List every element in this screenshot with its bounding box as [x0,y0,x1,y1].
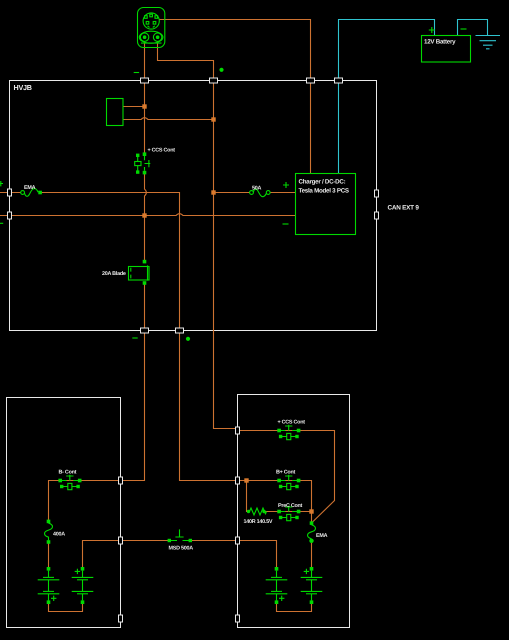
port HVJB top 12V [335,78,343,83]
port HVJB left + [8,189,12,196]
plus mark at HVJB left + port [0,181,3,186]
minus mark at HVJB left - port [0,222,3,224]
junction wire3 / + rail right [211,190,215,194]
svg-text:CAN EXT 9: CAN EXT 9 [388,205,420,212]
svg-text:+ CCS Cont: + CCS Cont [278,420,306,426]
junction precharge / B+ down leg [309,509,313,513]
junction wire1 / module A [142,104,146,108]
svg-text:400A: 400A [53,532,65,538]
svg-text:B- Cont: B- Cont [59,470,77,476]
port HVJB top wire3 [210,78,218,83]
12V battery B1 [422,36,471,63]
contactor CCS Cont (vertical, in HVJB) [135,148,176,175]
wire CCS DC- (wire1) below blade fuse down and left to B- port [121,284,145,481]
port left box spare [119,615,123,622]
contactor + CCS Cont (right box) [277,420,305,440]
fuse 20A Blade [102,260,149,285]
battery pack left (bottom-left box, + at bottom) [38,567,60,604]
wire charge port module output A to wire1 [123,106,144,108]
node dot below HVJB bottom edge at wire2 [186,337,190,341]
port right box spare [236,615,240,622]
svg-text:PreC Cont: PreC Cont [278,503,303,509]
port HVJB top AC [307,78,315,83]
wire charge port module output B hop over wire1 to wire3 [123,118,213,120]
contactor PreC Cont [277,503,302,521]
wire CCS DC- (wire1) hop over + rail and down to blade fuse [145,173,147,262]
PCS charger box U1 [296,174,356,235]
wire CCS AC line to PCS (orange) [160,20,311,174]
svg-text:MSD 500A: MSD 500A [169,546,194,552]
wire battery bottoms link (right box) [277,603,312,612]
port HVJB bottom wire2 [176,328,184,333]
plus mark 12V battery [429,27,435,33]
HVJB enclosure box [10,81,377,331]
wire MSD link between boxes [121,540,238,542]
svg-text:EMA: EMA [24,185,36,191]
charge port control module [107,99,124,126]
wire battery bottoms link (left box) [49,603,83,612]
port right box MSD [236,537,240,544]
wire B- from port through contactor to 400A fuse [49,481,121,522]
minus mark PCS input [283,223,289,225]
port HVJB top wire1 [141,78,149,83]
svg-text:EMA: EMA [316,533,328,539]
port left box B- [119,477,123,484]
minus mark below HVJB top edge at wire1 [134,72,139,74]
wire 12V- cyan from battery to chassis ground [458,20,488,36]
svg-text:20A Blade: 20A Blade [102,271,126,277]
contactor B- Cont [58,470,81,490]
wire CCS DC- (wire1) upper part [144,42,146,155]
wire junction to EMA fuse top [311,512,313,523]
port HVJB left - [8,212,12,219]
fuse 400A (vertical) [45,520,66,544]
junction wire3 / module B [211,117,215,121]
junction B+ / precharge branch [244,478,248,482]
CCS charge inlet connector J1 [138,8,165,48]
wire 12V+ cyan from PCS to battery [339,20,435,174]
wire CCS DC+ (wire3) from inlet down to right box CCS port [158,42,238,429]
port right box CCS [236,427,240,434]
wire right battery top to MSD port (left box) [83,541,121,569]
wire precharge branch [247,481,312,512]
wire MSD port to left battery top (right box) [238,541,277,568]
svg-text:+ CCS Cont: + CCS Cont [148,148,176,154]
precharge resistor [244,508,273,525]
wire 400A fuse to left battery top [48,544,50,568]
svg-text:B+ Cont: B+ Cont [276,470,296,476]
fuse EMA (right box, vertical) [308,521,328,543]
minus mark below HVJB bottom edge at wire1 [132,337,137,339]
bottom-right battery enclosure box [238,395,350,628]
node dot below HVJB top edge at wire3 [219,68,223,72]
wire + rail right segment through 50A fuse to PCS + [214,192,296,194]
junction wire1 / - rail [142,213,146,217]
wire CCS contactor run in right box down to EMA fuse [238,431,335,524]
fuse 50A (horizontal near PCS) [250,186,271,197]
bottom-left battery enclosure box [7,398,121,628]
contactor B+ Cont [276,470,300,490]
svg-text:140R 140.5V: 140R 140.5V [244,519,273,525]
wire B+ run in right box [238,481,312,512]
wire - rail from left port to PCS (hops over wire2) [0,214,296,216]
port HVJB right CAN hi [375,190,379,197]
chassis ground [476,36,501,49]
svg-text:HVJB: HVJB [14,83,32,92]
port HVJB right CAN lo [375,212,379,219]
port HVJB bottom wire1 [141,328,149,333]
wire + rail from left port through EMA fuse then down as wire2 to B+ port [0,193,238,481]
port left box MSD [119,537,123,544]
battery pack right (bottom-right box, + at top) [301,567,323,604]
plus mark PCS input [283,182,289,188]
svg-text:Charger / DC-DC:: Charger / DC-DC: [299,179,346,186]
fuse EMA (left, horizontal) [21,185,42,196]
port right box B+ [236,477,240,484]
MSD 500A service disconnect [168,529,194,551]
svg-text:12V Battery: 12V Battery [424,39,456,46]
battery pack right (bottom-left box, + at top) [72,567,94,604]
wire EMA fuse bottom to right battery top (right box) [311,543,313,568]
svg-text:50A: 50A [252,186,261,192]
battery pack left (bottom-right box, + at bottom) [266,567,288,604]
minus mark 12V battery [461,28,467,30]
svg-text:Tesla Model 3 PCS: Tesla Model 3 PCS [299,188,349,195]
